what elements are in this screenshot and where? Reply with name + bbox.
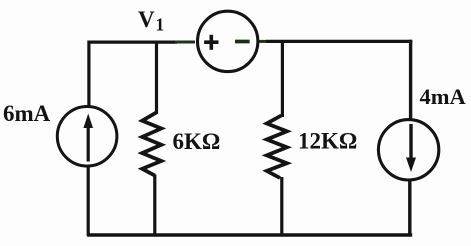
svg-text:6KΩ: 6KΩ — [173, 129, 221, 154]
voltage source plus sign — [210, 35, 214, 50]
svg-text:1: 1 — [156, 15, 165, 35]
wire right vertical upper — [409, 40, 412, 121]
current source I2 circle (4mA) — [378, 120, 438, 180]
resistor R1 lead top — [155, 42, 158, 114]
wire top-right horizontal — [266, 40, 412, 43]
wire top-left horizontal — [88, 40, 178, 43]
current source I2 arrow down — [409, 124, 412, 160]
svg-text:12KΩ: 12KΩ — [298, 128, 357, 153]
resistor R2 zigzag (12K) — [267, 116, 287, 179]
wire green segment left of voltage source — [175, 41, 195, 44]
wire right vertical lower — [408, 179, 411, 237]
svg-text:V: V — [138, 7, 155, 32]
resistor R2 lead bottom — [280, 177, 283, 236]
wire bottom horizontal — [87, 233, 412, 236]
wire left vertical upper — [87, 41, 90, 108]
current source I1 circle (6mA) — [57, 107, 117, 167]
voltage source minus sign — [235, 40, 250, 44]
voltage source V1 circle — [198, 11, 258, 71]
wire green segment right of voltage source — [258, 40, 267, 43]
resistor R1 zigzag (6K) — [142, 113, 161, 176]
wire left vertical lower — [87, 166, 90, 237]
current source I1 arrow up — [87, 124, 90, 162]
svg-text:6mA: 6mA — [3, 101, 51, 126]
resistor R1 lead bottom — [153, 175, 156, 237]
svg-text:4mA: 4mA — [420, 84, 467, 109]
resistor R2 lead top — [281, 41, 284, 118]
